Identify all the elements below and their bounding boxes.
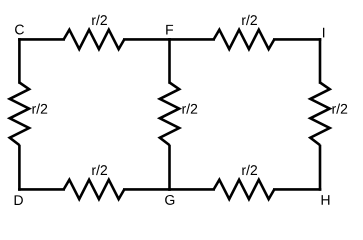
node F label: [166, 25, 173, 35]
value label r/2 (D-G resistor): [92, 165, 107, 175]
wire F to I (top-right rail): [170, 38, 321, 41]
node C label: [15, 25, 24, 35]
resistor r/2 between G and H: [214, 180, 275, 199]
value label r/2 (F-G resistor): [182, 104, 197, 114]
value label r/2 (C-D resistor): [32, 104, 47, 114]
value label r/2 (I-H resistor): [332, 104, 347, 114]
wire I to H (right branch): [319, 39, 322, 189]
resistor r/2 between I and H: [310, 83, 329, 146]
wire C to D (left branch): [18, 39, 21, 189]
node G label: [165, 195, 174, 205]
node D label: [15, 195, 23, 205]
value label r/2 (G-H resistor): [242, 165, 257, 175]
wire D to G (bottom-left rail): [19, 188, 169, 191]
wire F to G (middle branch): [168, 39, 171, 189]
wire G to H (bottom-right rail): [170, 188, 321, 191]
resistor r/2 between F and I: [214, 30, 275, 49]
wire C to F (top-left rail): [19, 38, 169, 41]
node I label: [323, 28, 324, 38]
resistor r/2 between C and F: [64, 30, 125, 49]
value label r/2 (F-I resistor): [242, 15, 257, 25]
resistor r/2 between D and G: [64, 180, 125, 199]
resistor r/2 between F and G: [160, 83, 179, 146]
value label r/2 (C-F resistor): [92, 15, 107, 25]
resistor r/2 between C and D: [10, 83, 29, 146]
node H label: [322, 195, 330, 205]
